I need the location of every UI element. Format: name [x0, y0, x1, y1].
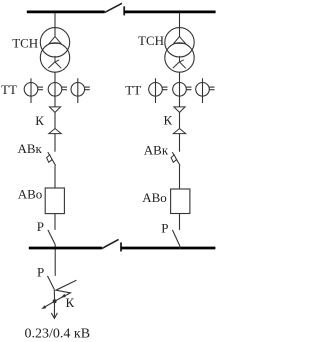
CT TA2 phase C wire [202, 78, 204, 103]
svg-text:АВк: АВк [18, 141, 43, 156]
svg-text:Р: Р [37, 219, 44, 234]
disconnector QS-A blade [105, 3, 122, 12]
breaker ABk1 square [47, 155, 52, 162]
CT TA2 phase A circle [149, 83, 163, 97]
disconnector QS-A fixed contact tick [123, 6, 125, 15]
disconnector QS-B blade [102, 239, 119, 248]
transformer T1 secondary star symbol [48, 56, 61, 68]
breaker ABo1 box [45, 188, 64, 214]
outgoing feeder arrow (down-left) [41, 301, 54, 309]
svg-text:Р: Р [161, 221, 168, 236]
wire: cable K2 to breaker ABk2 [179, 134, 181, 152]
breaker ABk2 square [171, 155, 176, 162]
short-circuit lightning arrow K [56, 280, 77, 300]
CT TA1 phase C secondary dashes [85, 87, 90, 90]
cable K1 upper termination [49, 107, 60, 113]
transformer T2 primary winding circle [165, 28, 194, 57]
breaker ABk2 blade [172, 152, 180, 165]
CT TA2 phase B secondary dashes [187, 87, 192, 90]
CT TA2 phase B circle [173, 83, 187, 97]
CT TA1 phase C wire [77, 78, 79, 103]
svg-text:0.23/0.4 кВ: 0.23/0.4 кВ [25, 326, 91, 341]
svg-text:ТТ: ТТ [1, 82, 17, 97]
CT TA1 phase A circle [24, 83, 38, 97]
wire: switch P1 through busbar B [54, 245, 56, 276]
wire: switch P3 to busbar B [179, 246, 181, 249]
transformer T1 primary delta symbol [49, 37, 61, 44]
svg-text:АВк: АВк [144, 142, 169, 157]
busbar A right section [124, 11, 216, 14]
transformer T1 secondary winding circle [40, 43, 69, 72]
node junction dot [53, 299, 57, 303]
wire: T1 to CT row [54, 72, 56, 107]
busbar B right section [121, 247, 216, 250]
transformer T2 primary delta symbol [174, 37, 186, 44]
breaker ABo2 box [171, 189, 190, 214]
svg-text:АВо: АВо [18, 187, 43, 202]
wire: switch P2 to node [53, 289, 55, 301]
svg-text:К: К [35, 113, 44, 128]
cable K2 wire [179, 112, 181, 128]
breaker ABk1 blade [48, 152, 56, 165]
transformer T1 primary winding circle [40, 28, 69, 57]
wire: cable K1 to breaker ABk1 [54, 134, 56, 152]
svg-text:К: К [164, 113, 173, 128]
wire: ABo1 to switch P1 [54, 214, 56, 230]
outgoing feeder arrow (down) [51, 301, 57, 318]
CT TA1 phase A wire [30, 78, 32, 103]
CT TA2 phase C circle [196, 83, 210, 97]
disconnector QS-B fixed contact tick [120, 242, 122, 251]
CT TA1 phase B secondary dashes [62, 87, 67, 90]
wire: breaker ABk2 to ABo2 [179, 166, 181, 190]
switch P1 blade [48, 230, 55, 245]
svg-text:ТСН: ТСН [12, 36, 38, 51]
CT TA2 phase A wire [155, 78, 157, 103]
wire: T2 to CT row [179, 72, 181, 107]
feeder switch P2 blade [48, 276, 55, 290]
transformer T2 secondary winding circle [165, 43, 194, 72]
switch P3 blade [172, 230, 179, 246]
wire: breaker ABk1 to ABo1 [54, 166, 56, 189]
wire: busbar A to transformer T2 [179, 13, 181, 37]
busbar A left section [27, 11, 105, 14]
cable K1 wire [54, 112, 56, 128]
CT TA1 phase B circle [48, 83, 62, 97]
cable K1 lower termination [49, 129, 61, 134]
svg-text:Р: Р [37, 265, 44, 280]
svg-text:ТСН: ТСН [138, 33, 164, 48]
CT TA2 phase C secondary dashes [210, 87, 215, 90]
svg-text:АВо: АВо [142, 190, 167, 205]
busbar B left section [29, 247, 102, 250]
cable K2 upper termination [174, 107, 185, 113]
svg-text:К: К [66, 295, 75, 310]
wire: busbar A to transformer T1 [54, 13, 56, 37]
CT TA1 phase A secondary dashes [38, 87, 43, 90]
wire: ABo2 to switch P3 [179, 214, 181, 230]
transformer T2 secondary star symbol [173, 56, 186, 68]
svg-text:ТТ: ТТ [125, 82, 141, 97]
CT TA2 phase A secondary dashes [163, 87, 168, 90]
cable K2 lower termination [173, 129, 185, 134]
CT TA1 phase C circle [71, 83, 85, 97]
